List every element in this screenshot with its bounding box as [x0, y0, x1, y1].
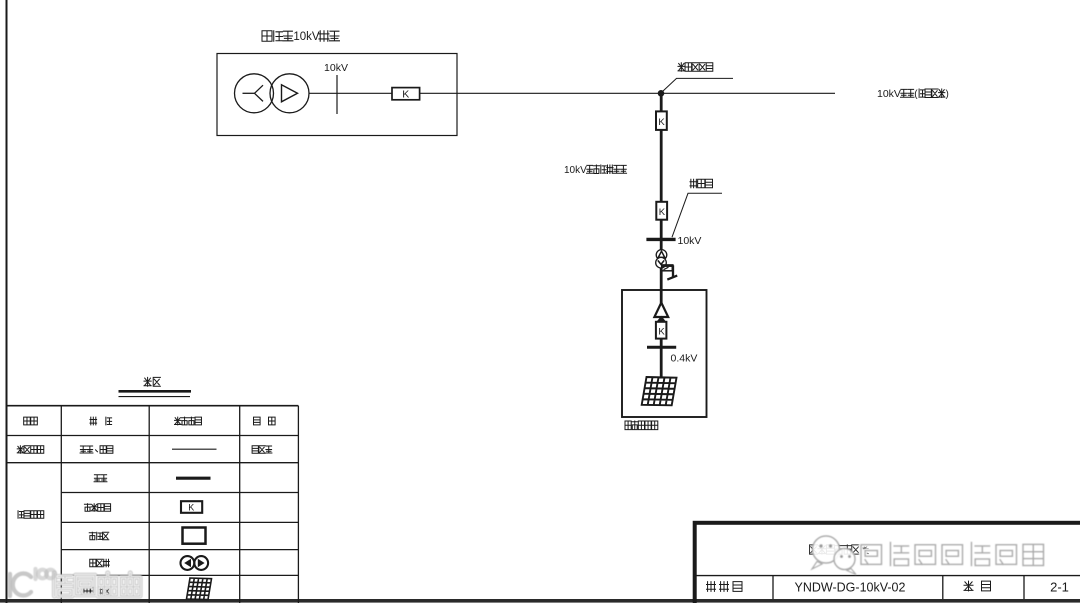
svg-text:10kV: 10kV [293, 31, 320, 43]
svg-text:10kV: 10kV [564, 165, 587, 176]
svg-text:): ) [946, 89, 949, 100]
svg-text:10kV: 10kV [877, 88, 901, 100]
svg-text:2-1: 2-1 [1050, 580, 1069, 595]
svg-text:YNDW-DG-10kV-02: YNDW-DG-10kV-02 [795, 581, 906, 595]
svg-text:K: K [658, 326, 665, 337]
svg-text:K: K [188, 502, 194, 512]
svg-text:10kV: 10kV [678, 235, 702, 247]
svg-text:K: K [659, 207, 666, 218]
svg-text:K: K [402, 88, 409, 100]
svg-text:10kV: 10kV [324, 62, 348, 74]
svg-text:K: K [658, 117, 665, 128]
svg-text:0.4kV: 0.4kV [671, 353, 698, 365]
